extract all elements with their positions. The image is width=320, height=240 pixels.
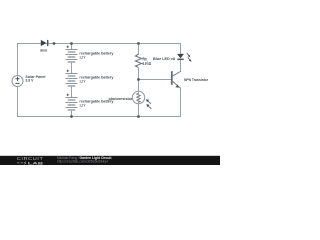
transistor Q1 NPN bar	[171, 71, 173, 85]
wire battery column	[71, 44, 73, 117]
svg-text:1.2 V: 1.2 V	[79, 56, 85, 60]
svg-text:NPN Transistor: NPN Transistor	[184, 77, 208, 82]
battery B2	[66, 70, 78, 86]
svg-text:diode: diode	[40, 47, 48, 52]
svg-text:http://circuitlab.com/c8r5e5u5: http://circuitlab.com/c8r5e5u5rkky4	[57, 159, 108, 163]
wire left	[17, 44, 19, 117]
solar panel V1	[12, 76, 23, 87]
LED D2	[177, 54, 184, 59]
wire base	[139, 79, 172, 81]
footer logo bolt	[24, 161, 27, 165]
node dot resistor top	[137, 42, 140, 45]
transistor emitter arrow	[175, 85, 179, 88]
node dot A	[53, 42, 56, 45]
photoresistor	[132, 91, 144, 103]
svg-text:LAB: LAB	[28, 161, 44, 165]
transistor emitter	[173, 81, 181, 88]
svg-text:1.2 V: 1.2 V	[79, 80, 85, 84]
svg-text:Blue LED x8: Blue LED x8	[153, 56, 176, 61]
battery B3	[66, 94, 78, 110]
node dot battery top	[70, 42, 73, 45]
svg-text:1.2 V: 1.2 V	[79, 104, 85, 108]
battery B1	[66, 46, 78, 62]
footer bar	[0, 156, 220, 165]
node dot battery bottom	[70, 115, 73, 118]
svg-text:3.8 V: 3.8 V	[25, 78, 33, 83]
wire resistor column	[138, 44, 140, 117]
wire right column	[180, 44, 182, 117]
node dot base junction	[137, 78, 140, 81]
svg-text:photoresistor: photoresistor	[109, 97, 134, 101]
svg-text:6.9 kΩ: 6.9 kΩ	[143, 61, 152, 66]
wire bottom	[17, 116, 181, 118]
photoresistor light arrow 2	[146, 104, 151, 109]
photoresistor light arrow 1	[146, 99, 151, 104]
footer logo dashes	[17, 162, 23, 164]
node dot photoresistor bottom	[137, 115, 140, 118]
transistor collector	[172, 72, 181, 77]
LED light arrow 1	[187, 53, 191, 57]
resistor Rx	[136, 54, 142, 68]
diode D1	[41, 40, 47, 46]
LED light arrow 2	[188, 57, 192, 61]
wire top	[17, 43, 181, 45]
